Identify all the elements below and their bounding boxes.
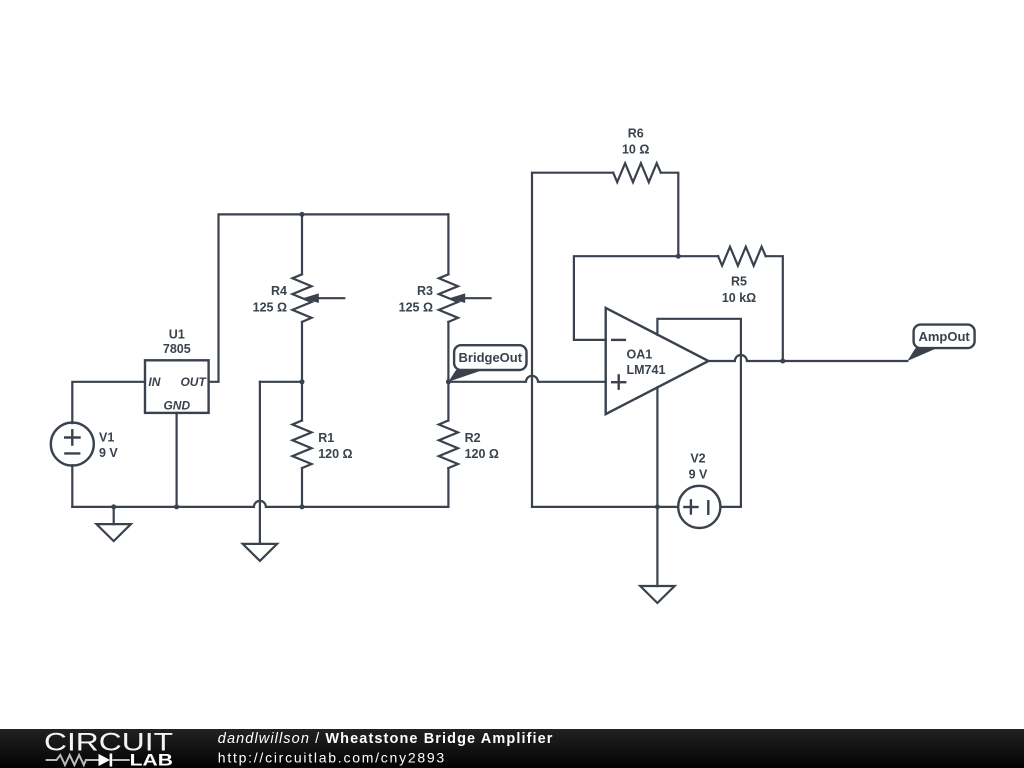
resistor R1 zigzag bbox=[292, 421, 311, 469]
svg-text:IN: IN bbox=[148, 375, 160, 389]
voltage source V1 bbox=[51, 423, 94, 466]
node V- rail junction bbox=[655, 504, 660, 509]
wire R1 bottom lead bbox=[301, 468, 303, 507]
svg-text:R1: R1 bbox=[318, 431, 334, 445]
svg-text:U1: U1 bbox=[169, 328, 185, 342]
wire op-amp output with hop bbox=[709, 355, 908, 361]
node rail junction at R1 bbox=[300, 504, 305, 509]
wire op-amp V+ pin to V2 plus bbox=[657, 319, 741, 507]
svg-text:R2: R2 bbox=[465, 431, 481, 445]
resistor R4 wiper arrow bbox=[303, 293, 345, 303]
resistor R5 zigzag bbox=[718, 247, 766, 266]
svg-text:125 Ω: 125 Ω bbox=[253, 301, 287, 315]
svg-text:OUT: OUT bbox=[180, 375, 207, 389]
svg-text:OA1: OA1 bbox=[627, 347, 653, 361]
voltage source V2 bbox=[678, 486, 720, 528]
svg-text:BridgeOut: BridgeOut bbox=[459, 350, 523, 365]
svg-text:7805: 7805 bbox=[163, 342, 191, 356]
resistor R3 wiper arrow bbox=[449, 293, 490, 303]
wire V2 minus rail bbox=[532, 506, 678, 508]
wire R2 top lead bbox=[447, 382, 449, 421]
svg-text:LM741: LM741 bbox=[627, 363, 666, 377]
svg-text:10 kΩ: 10 kΩ bbox=[722, 291, 756, 305]
wire bottom ground rail with hop bbox=[72, 501, 448, 507]
wire R2 bottom lead bbox=[447, 468, 449, 507]
logo mark resistor+diode bbox=[46, 754, 130, 767]
resistor R3 zigzag (potentiometer) bbox=[439, 274, 458, 322]
svg-text:9 V: 9 V bbox=[99, 446, 118, 460]
node left mid junction bbox=[300, 379, 305, 384]
ground (main rail) bbox=[97, 507, 131, 541]
resistor R4 zigzag (potentiometer) bbox=[292, 274, 311, 322]
wire R3 bottom lead to BridgeOut node bbox=[447, 322, 449, 382]
svg-text:120 Ω: 120 Ω bbox=[465, 447, 499, 461]
wire U1 OUT pin up to bridge top rail bbox=[209, 214, 449, 381]
footer bar bbox=[0, 729, 1024, 768]
svg-text:120 Ω: 120 Ω bbox=[318, 447, 352, 461]
flag BridgeOut bbox=[448, 345, 526, 382]
wire R6 left vertical down to V2 minus rail bbox=[532, 173, 613, 507]
wire op-amp inverting input net bbox=[574, 256, 718, 340]
node rail junction at ground 1 bbox=[111, 504, 116, 509]
ground (bridge left mid) bbox=[243, 544, 277, 561]
svg-text:LAB: LAB bbox=[130, 751, 173, 768]
wire R4 bottom lead bbox=[301, 322, 303, 382]
svg-text:AmpOut: AmpOut bbox=[918, 329, 970, 344]
wire R1 top lead bbox=[301, 382, 303, 421]
svg-text:R4: R4 bbox=[271, 284, 287, 298]
ground (op-amp V-) bbox=[640, 586, 674, 603]
wire left mid node to ground branch bbox=[260, 381, 302, 383]
svg-text:9 V: 9 V bbox=[689, 468, 708, 482]
svg-text:http://circuitlab.com/cny2893: http://circuitlab.com/cny2893 bbox=[218, 749, 446, 765]
wire R5 right lead down to output bbox=[766, 256, 783, 361]
svg-text:V1: V1 bbox=[99, 431, 114, 445]
node rail junction at U1 GND bbox=[174, 504, 179, 509]
svg-text:10 Ω: 10 Ω bbox=[622, 143, 649, 157]
svg-text:R5: R5 bbox=[731, 274, 747, 288]
svg-text:V2: V2 bbox=[690, 451, 705, 465]
wire BridgeOut to op-amp + input with hop bbox=[448, 376, 605, 382]
wire R6 right lead down to R5 net bbox=[661, 173, 679, 257]
resistor R2 zigzag bbox=[439, 421, 458, 469]
svg-text:R3: R3 bbox=[417, 284, 433, 298]
flag AmpOut bbox=[907, 325, 974, 361]
svg-text:R6: R6 bbox=[628, 127, 644, 141]
wire V1 minus to rail bbox=[71, 465, 73, 507]
svg-text:dandlwillson / Wheatstone Brid: dandlwillson / Wheatstone Bridge Amplifi… bbox=[218, 731, 554, 747]
svg-text:GND: GND bbox=[163, 399, 190, 413]
resistor R6 zigzag bbox=[613, 163, 661, 182]
op-amp OA1 triangle bbox=[606, 308, 709, 414]
svg-text:125 Ω: 125 Ω bbox=[399, 301, 433, 315]
node output/R5 junction bbox=[780, 359, 785, 364]
wire ground branch vertical bbox=[259, 382, 261, 544]
wire op-amp V- pin down to ground bbox=[656, 387, 658, 586]
wire R3 top lead bbox=[447, 214, 449, 274]
wire R4 top lead bbox=[301, 214, 303, 274]
wire V1+ to U1 IN pin bbox=[72, 382, 145, 423]
node bridge top junction bbox=[300, 212, 305, 217]
wire U1 GND pin down to rail bbox=[176, 413, 178, 507]
IC U1 7805 box bbox=[145, 360, 209, 413]
node R6/R5 junction bbox=[676, 254, 681, 259]
op-amp minus symbol bbox=[612, 339, 625, 341]
node BridgeOut junction bbox=[446, 379, 451, 384]
op-amp plus symbol bbox=[612, 375, 625, 388]
